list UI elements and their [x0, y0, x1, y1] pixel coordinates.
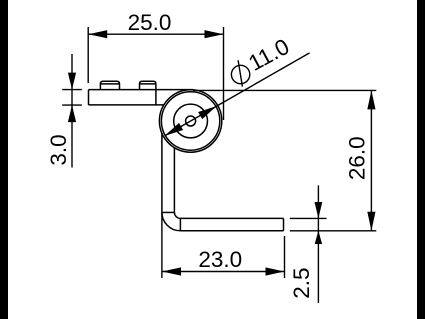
label dia symbol circle — [231, 65, 249, 83]
dim 25.0 right extension line — [223, 27, 225, 120]
dim 3.0 bottom tick — [62, 104, 82, 106]
svg-text:25.0: 25.0 — [128, 10, 172, 35]
svg-text:23.0: 23.0 — [198, 247, 242, 272]
arrow 25.0 left — [88, 30, 107, 38]
plate left edge — [88, 90, 90, 105]
svg-text:3.0: 3.0 — [46, 134, 71, 165]
arrow 25.0 right — [205, 30, 224, 38]
dim 26.0 top extension line — [193, 89, 376, 91]
svg-text:2.5: 2.5 — [289, 267, 314, 298]
dim 2.5 top extension line — [290, 217, 327, 219]
plate bottom edge — [89, 104, 173, 106]
label dia symbol slash — [238, 60, 242, 86]
dim 26.0 line — [370, 90, 372, 230]
arrow 26.0 top (up) — [367, 90, 375, 109]
boss ring circle d=11 — [161, 92, 219, 150]
arrow 3.0 bottom (up) — [68, 105, 76, 122]
arrow dia11 upper-right — [198, 106, 217, 119]
center hole — [186, 116, 196, 126]
dim 3.0 vertical line — [71, 54, 73, 168]
plate top edge — [89, 89, 194, 91]
arrow 2.5 top (down) — [315, 202, 323, 218]
dim 23.0 left extension line — [161, 213, 163, 278]
arrow 26.0 bottom (down) — [367, 212, 375, 231]
boss outer circle — [159, 90, 221, 152]
dia 11.0 leader line — [165, 53, 310, 136]
bend tangent tick — [162, 211, 175, 213]
leg left edge — [161, 128, 163, 213]
arrow dia11 lower-left — [165, 123, 184, 136]
arrow 23.0 left — [162, 267, 181, 275]
dim 3.0 top tick — [62, 89, 82, 91]
arrow 2.5 bottom (up) — [315, 231, 322, 244]
right black bar — [417, 0, 425, 319]
bend vertical tangent line — [179, 218, 181, 230]
inner bend fillet — [174, 212, 180, 218]
dim 25.0 line — [88, 33, 223, 35]
dim 25.0 left extension line — [87, 27, 89, 83]
dim 2.5 vertical line — [317, 185, 319, 303]
bump 2 inner line — [140, 83, 156, 85]
bump 2 outline — [140, 81, 156, 89]
left black bar — [0, 0, 8, 319]
bump 1 inner line — [100, 83, 119, 85]
arrow 23.0 right — [266, 267, 285, 275]
svg-text:26.0: 26.0 — [345, 136, 370, 180]
plate right end edge — [155, 90, 157, 105]
bottom leg top edge — [180, 217, 283, 219]
outer bend fillet — [162, 212, 181, 231]
dim 26.0 bottom extension line — [290, 230, 377, 232]
leg right edge — [173, 142, 175, 212]
bottom leg bottom edge — [180, 230, 283, 232]
arrow 3.0 top (down) — [68, 73, 76, 90]
dim 23.0 right extension line — [284, 236, 286, 278]
dim 23.0 line — [162, 271, 285, 273]
bump 1 outline — [100, 81, 119, 89]
bottom leg right end — [283, 218, 285, 230]
boss middle circle — [174, 104, 208, 138]
